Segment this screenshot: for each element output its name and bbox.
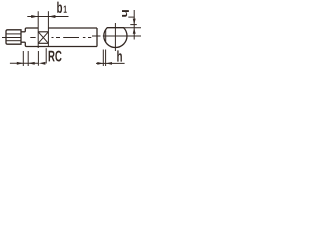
- centerline left tick: [2, 37, 6, 39]
- h bottom dim: extension line from circle edge: [102, 50, 104, 67]
- thread line 3: [6, 40, 21, 42]
- label RC glyph C: [55, 51, 61, 62]
- label h bottom glyph: [117, 50, 122, 61]
- cylinder right end edge: [96, 28, 98, 47]
- label b1 glyph b: [57, 2, 62, 13]
- bottom-left extension line 2: [27, 51, 29, 66]
- bottom-left dimension line: [10, 62, 39, 64]
- h top dim: up arrowhead onto flat line: [133, 28, 136, 34]
- bottom-left arrow pointing right: [17, 62, 24, 65]
- circle vertical centerline: [114, 23, 116, 51]
- bottom-left extension line 1: [22, 51, 24, 66]
- h bottom dim: dimension line: [96, 62, 125, 64]
- h top dim: upper extension line (phantom top): [130, 24, 137, 26]
- cylinder left edge upper: [25, 28, 26, 32]
- h bottom dim: arrow pointing left: [106, 62, 112, 65]
- extension line left of RC: [45, 48, 47, 63]
- h bottom dim: arrow pointing right: [97, 62, 103, 65]
- h bottom dim: extension line from chord: [105, 50, 107, 67]
- bottom-left arrow pointing left at x28.8: [28, 62, 35, 65]
- thread line 1: [6, 33, 21, 35]
- label h top rotated glyph: [122, 10, 129, 17]
- b1 extension line right: [47, 11, 49, 46]
- cylinder top edge left segment: [27, 27, 39, 29]
- b1 arrow right: [48, 15, 55, 18]
- end view circle with top flat: [104, 28, 127, 48]
- label b1 glyph 1: [64, 6, 67, 13]
- cylinder bottom edge: [27, 46, 98, 48]
- circle horizontal centerline: [92, 35, 141, 37]
- b1 dimension line: [27, 16, 68, 18]
- front flat chord (left, vertical): [105, 30, 107, 43]
- b1 extension line left: [37, 11, 39, 66]
- flat box bottom line: [38, 42, 48, 44]
- cylinder left edge lower: [25, 42, 26, 46]
- thread line 2 (centerline through block): [6, 37, 21, 39]
- threaded block outline: [6, 30, 21, 44]
- wrench flat top line: [38, 31, 48, 33]
- label RC glyph R: [49, 51, 55, 62]
- h top dim: down arrowhead onto upper extension: [133, 19, 136, 25]
- neck bottom edge: [21, 41, 25, 43]
- cylinder top edge right segment: [48, 27, 97, 29]
- flat box diagonal 2: [38, 32, 48, 44]
- h top dim: shelf line: [128, 16, 134, 18]
- neck top edge: [21, 31, 25, 33]
- h top dim: vertical dimension line: [133, 10, 135, 40]
- side view centerline dashes: [30, 37, 91, 39]
- bottom-left arrow pointing left at x38.4: [39, 62, 46, 65]
- flat box diagonal 1: [38, 32, 48, 44]
- b1 arrow left: [31, 15, 38, 18]
- flat extension line to right edge: [124, 27, 141, 29]
